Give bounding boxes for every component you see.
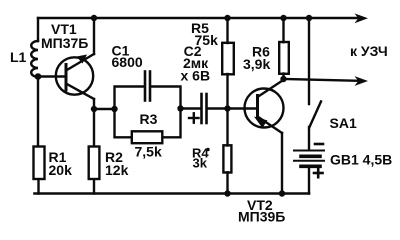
svg-text:SA1: SA1 bbox=[330, 115, 357, 131]
svg-text:12k: 12k bbox=[105, 162, 129, 178]
inductor L1 bbox=[31, 41, 38, 77]
wire R4 bottom lead bbox=[226, 172, 228, 193]
capacitor C2 plus mark bbox=[189, 113, 199, 122]
wire node to C2 bbox=[181, 107, 201, 109]
wire top supply rail bbox=[38, 17, 357, 19]
arrow to УЗЧ lower bbox=[355, 76, 369, 86]
resistor R6 bbox=[279, 42, 289, 74]
wire R5 bottom lead bbox=[226, 74, 228, 109]
node VT2 emitter / bottom rail bbox=[279, 190, 285, 196]
wire R4 top lead bbox=[226, 109, 228, 146]
wire left column top (L1 top lead) bbox=[37, 18, 39, 41]
wire L1 bottom to R1 bbox=[37, 77, 39, 145]
wire R2 to bottom rail bbox=[93, 180, 95, 193]
node C1/R3 right bbox=[177, 105, 183, 111]
wire switch to battery bbox=[308, 127, 310, 150]
battery plus mark bbox=[314, 169, 323, 177]
wire R3 right bbox=[164, 109, 181, 137]
switch SA1 bbox=[310, 102, 322, 128]
capacitor C2 bbox=[202, 94, 207, 123]
node top rail / VT1 emitter bbox=[91, 15, 97, 21]
wire C2 to VT2 base bbox=[208, 107, 257, 109]
battery minus mark bbox=[315, 143, 323, 146]
wire battery to bottom rail bbox=[308, 167, 310, 194]
wire VT1 collector down to R2 bbox=[93, 99, 95, 145]
resistor R5 bbox=[222, 43, 234, 75]
wire R5 top lead bbox=[226, 18, 228, 43]
svg-text:3,9k: 3,9k bbox=[243, 56, 270, 72]
wire VT2 emitter down to rail bbox=[281, 133, 283, 194]
node top rail / switch branch bbox=[306, 15, 312, 21]
arrow to УЗЧ upper bbox=[355, 13, 369, 23]
wire R3 branch left bbox=[115, 109, 132, 137]
transistor VT2 bbox=[245, 80, 285, 134]
svg-text:3k: 3k bbox=[193, 156, 208, 171]
wire C1 right to right vertical bbox=[151, 87, 181, 110]
svg-text:МП39Б: МП39Б bbox=[238, 209, 285, 225]
svg-text:R3: R3 bbox=[140, 111, 158, 127]
node R6 / VT2 collector / output bbox=[280, 76, 286, 82]
wire VT1 base lead bbox=[38, 75, 65, 77]
svg-text:GB1 4,5В: GB1 4,5В bbox=[330, 152, 392, 168]
wire emitter node to C1/R3 network bbox=[94, 108, 115, 110]
node top rail / R5 bbox=[224, 15, 230, 21]
wire R6 top lead bbox=[282, 18, 284, 42]
wire VT1 emitter up to rail bbox=[93, 18, 95, 54]
wire collector output to УЗЧ bbox=[284, 79, 359, 81]
node VT1 collector / R2 / C1 net bbox=[91, 106, 97, 112]
resistor R2 bbox=[89, 147, 100, 180]
wire C1 branch left vertical bbox=[115, 87, 145, 110]
transistor VT1 bbox=[56, 54, 94, 99]
svg-text:х 6В: х 6В bbox=[181, 67, 211, 83]
capacitor C1 bbox=[145, 72, 150, 101]
resistor R3 bbox=[132, 131, 163, 143]
label R4 asterisk dot bbox=[206, 148, 209, 151]
node R4 / bottom rail bbox=[224, 190, 230, 196]
svg-text:20k: 20k bbox=[49, 162, 73, 178]
wire bottom ground rail bbox=[35, 192, 310, 195]
svg-text:7,5k: 7,5k bbox=[135, 144, 162, 160]
svg-text:6800: 6800 bbox=[112, 54, 143, 70]
svg-text:к УЗЧ: к УЗЧ bbox=[350, 43, 388, 59]
node L1 / VT1 base / R1 bbox=[35, 73, 42, 80]
resistor R4 bbox=[223, 145, 231, 172]
node R5 / C2 / R4 / VT2 base bbox=[224, 105, 230, 111]
svg-text:МП37Б: МП37Б bbox=[41, 35, 88, 51]
resistor R1 bbox=[34, 147, 45, 180]
node top rail / R6 bbox=[280, 15, 286, 21]
wire R6 bottom lead bbox=[282, 74, 284, 81]
wire switch branch from rail bbox=[308, 18, 310, 104]
wire R1 to bottom rail bbox=[37, 180, 39, 193]
battery GB1 bbox=[294, 151, 324, 167]
node C1/R3 left bbox=[111, 106, 117, 112]
svg-text:L1: L1 bbox=[10, 49, 27, 65]
